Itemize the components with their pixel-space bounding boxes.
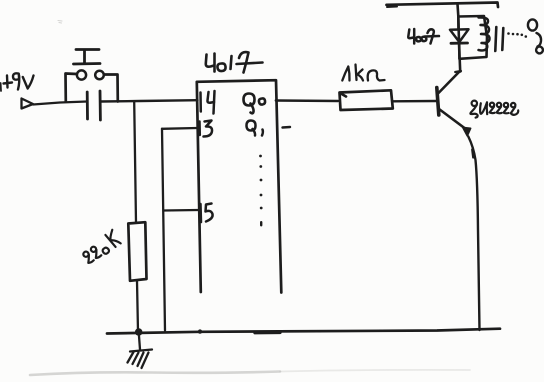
pushbutton S1 left contact circle xyxy=(77,70,86,79)
label 220K (rotated) xyxy=(80,230,122,265)
wire emitter to ground rail xyxy=(468,137,479,331)
transistor Q1 collector xyxy=(439,72,460,93)
ground rail xyxy=(107,329,500,334)
ground symbol xyxy=(128,350,153,369)
scan smudge bottom band xyxy=(30,372,280,376)
pin label 14 xyxy=(201,91,215,114)
top rail left tick xyxy=(387,6,397,9)
IC internal dots column xyxy=(259,155,263,227)
transistor Q1 base bar xyxy=(437,88,439,116)
diode D1 cathode bar xyxy=(451,42,468,45)
label 1k ohm xyxy=(342,65,384,81)
top +V rail xyxy=(387,3,499,8)
label 4017 xyxy=(206,52,263,72)
diode D1 1N4007 triangle xyxy=(450,29,469,42)
node +9V input terminal triangle xyxy=(22,99,34,109)
wire +9V terminal to capacitor C1 xyxy=(33,102,87,105)
scan left-edge tick xyxy=(0,83,2,91)
relay contact bar left xyxy=(495,27,496,51)
contact terminal circle xyxy=(528,19,537,30)
diode D1 cathode lead xyxy=(458,44,461,59)
pin label 13 xyxy=(200,121,213,137)
ground rail blob xyxy=(198,329,202,333)
resistor R1 1k body xyxy=(340,90,393,110)
scan speck xyxy=(58,21,62,24)
label 4007 xyxy=(408,29,439,44)
ground rail thick segment xyxy=(255,331,280,335)
wire R1 to transistor base xyxy=(393,100,436,103)
pin label Q0 xyxy=(244,94,266,114)
wire junction to resistor R2 xyxy=(134,102,136,223)
label 2N2222 xyxy=(470,101,518,118)
wire Q0 to resistor R1 xyxy=(276,99,338,102)
relay contact bar right xyxy=(502,28,503,50)
wire IC pin 15 to ground line xyxy=(164,209,199,212)
wire capacitor C1 to IC pin 14 xyxy=(101,100,198,101)
emitter wire tick xyxy=(472,150,473,158)
resistor R2 220K body xyxy=(128,222,146,281)
contact hook at edge xyxy=(537,33,542,47)
pushbutton S1 right contact circle xyxy=(95,71,104,80)
wire R2 to ground rail xyxy=(137,281,138,332)
pushbutton S1 left lead xyxy=(66,74,77,102)
relay K1 box xyxy=(458,16,487,59)
diode D1 anode lead xyxy=(457,17,460,30)
relay coil xyxy=(479,17,490,50)
pushbutton S1 right lead xyxy=(104,75,118,102)
dotted contact link xyxy=(507,32,527,38)
transistor Q1 emitter xyxy=(439,109,465,128)
pin Q1 stub xyxy=(283,126,291,129)
capacitor C1 left plate xyxy=(86,92,89,119)
junction dot at ground rail xyxy=(135,328,143,336)
IC U1 4017 outline (open bottom) xyxy=(197,80,281,292)
collector junction tick xyxy=(455,71,461,72)
pushbutton S1 actuator (I shape) xyxy=(74,50,101,65)
capacitor C1 right plate xyxy=(99,91,102,120)
wire IC pin 13 to ground line xyxy=(162,127,197,130)
wire ground line vertical xyxy=(162,129,165,331)
ground symbol stem xyxy=(139,336,140,350)
wire rail to relay K1 xyxy=(456,4,459,16)
wire relay to collector xyxy=(458,59,461,72)
pin label 15 xyxy=(201,204,213,223)
pin label Q1 xyxy=(247,121,263,136)
transistor Q1 emitter arrow xyxy=(463,128,471,136)
label +9V xyxy=(4,73,34,89)
